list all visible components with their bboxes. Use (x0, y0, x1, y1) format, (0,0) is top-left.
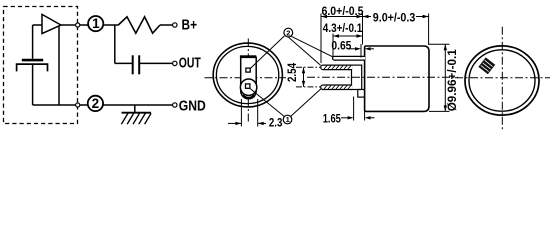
svg-text:0.65: 0.65 (331, 39, 351, 53)
svg-text:4.3+/-0.1: 4.3+/-0.1 (323, 21, 363, 35)
svg-text:B+: B+ (182, 17, 198, 33)
svg-text:Ø9.96+/-0.1: Ø9.96+/-0.1 (445, 49, 459, 111)
svg-text:1: 1 (92, 16, 100, 31)
svg-text:GND: GND (179, 99, 206, 115)
svg-text:9.0+/-0.3: 9.0+/-0.3 (373, 10, 416, 24)
svg-text:1: 1 (286, 115, 290, 124)
svg-text:OUT: OUT (179, 55, 201, 71)
svg-text:2: 2 (286, 28, 290, 37)
svg-text:2: 2 (92, 96, 100, 111)
svg-text:2.54: 2.54 (285, 63, 299, 82)
svg-text:2.3: 2.3 (269, 116, 283, 130)
svg-text:1.65: 1.65 (323, 111, 341, 125)
svg-text:6.0+/-0.5: 6.0+/-0.5 (322, 4, 364, 18)
